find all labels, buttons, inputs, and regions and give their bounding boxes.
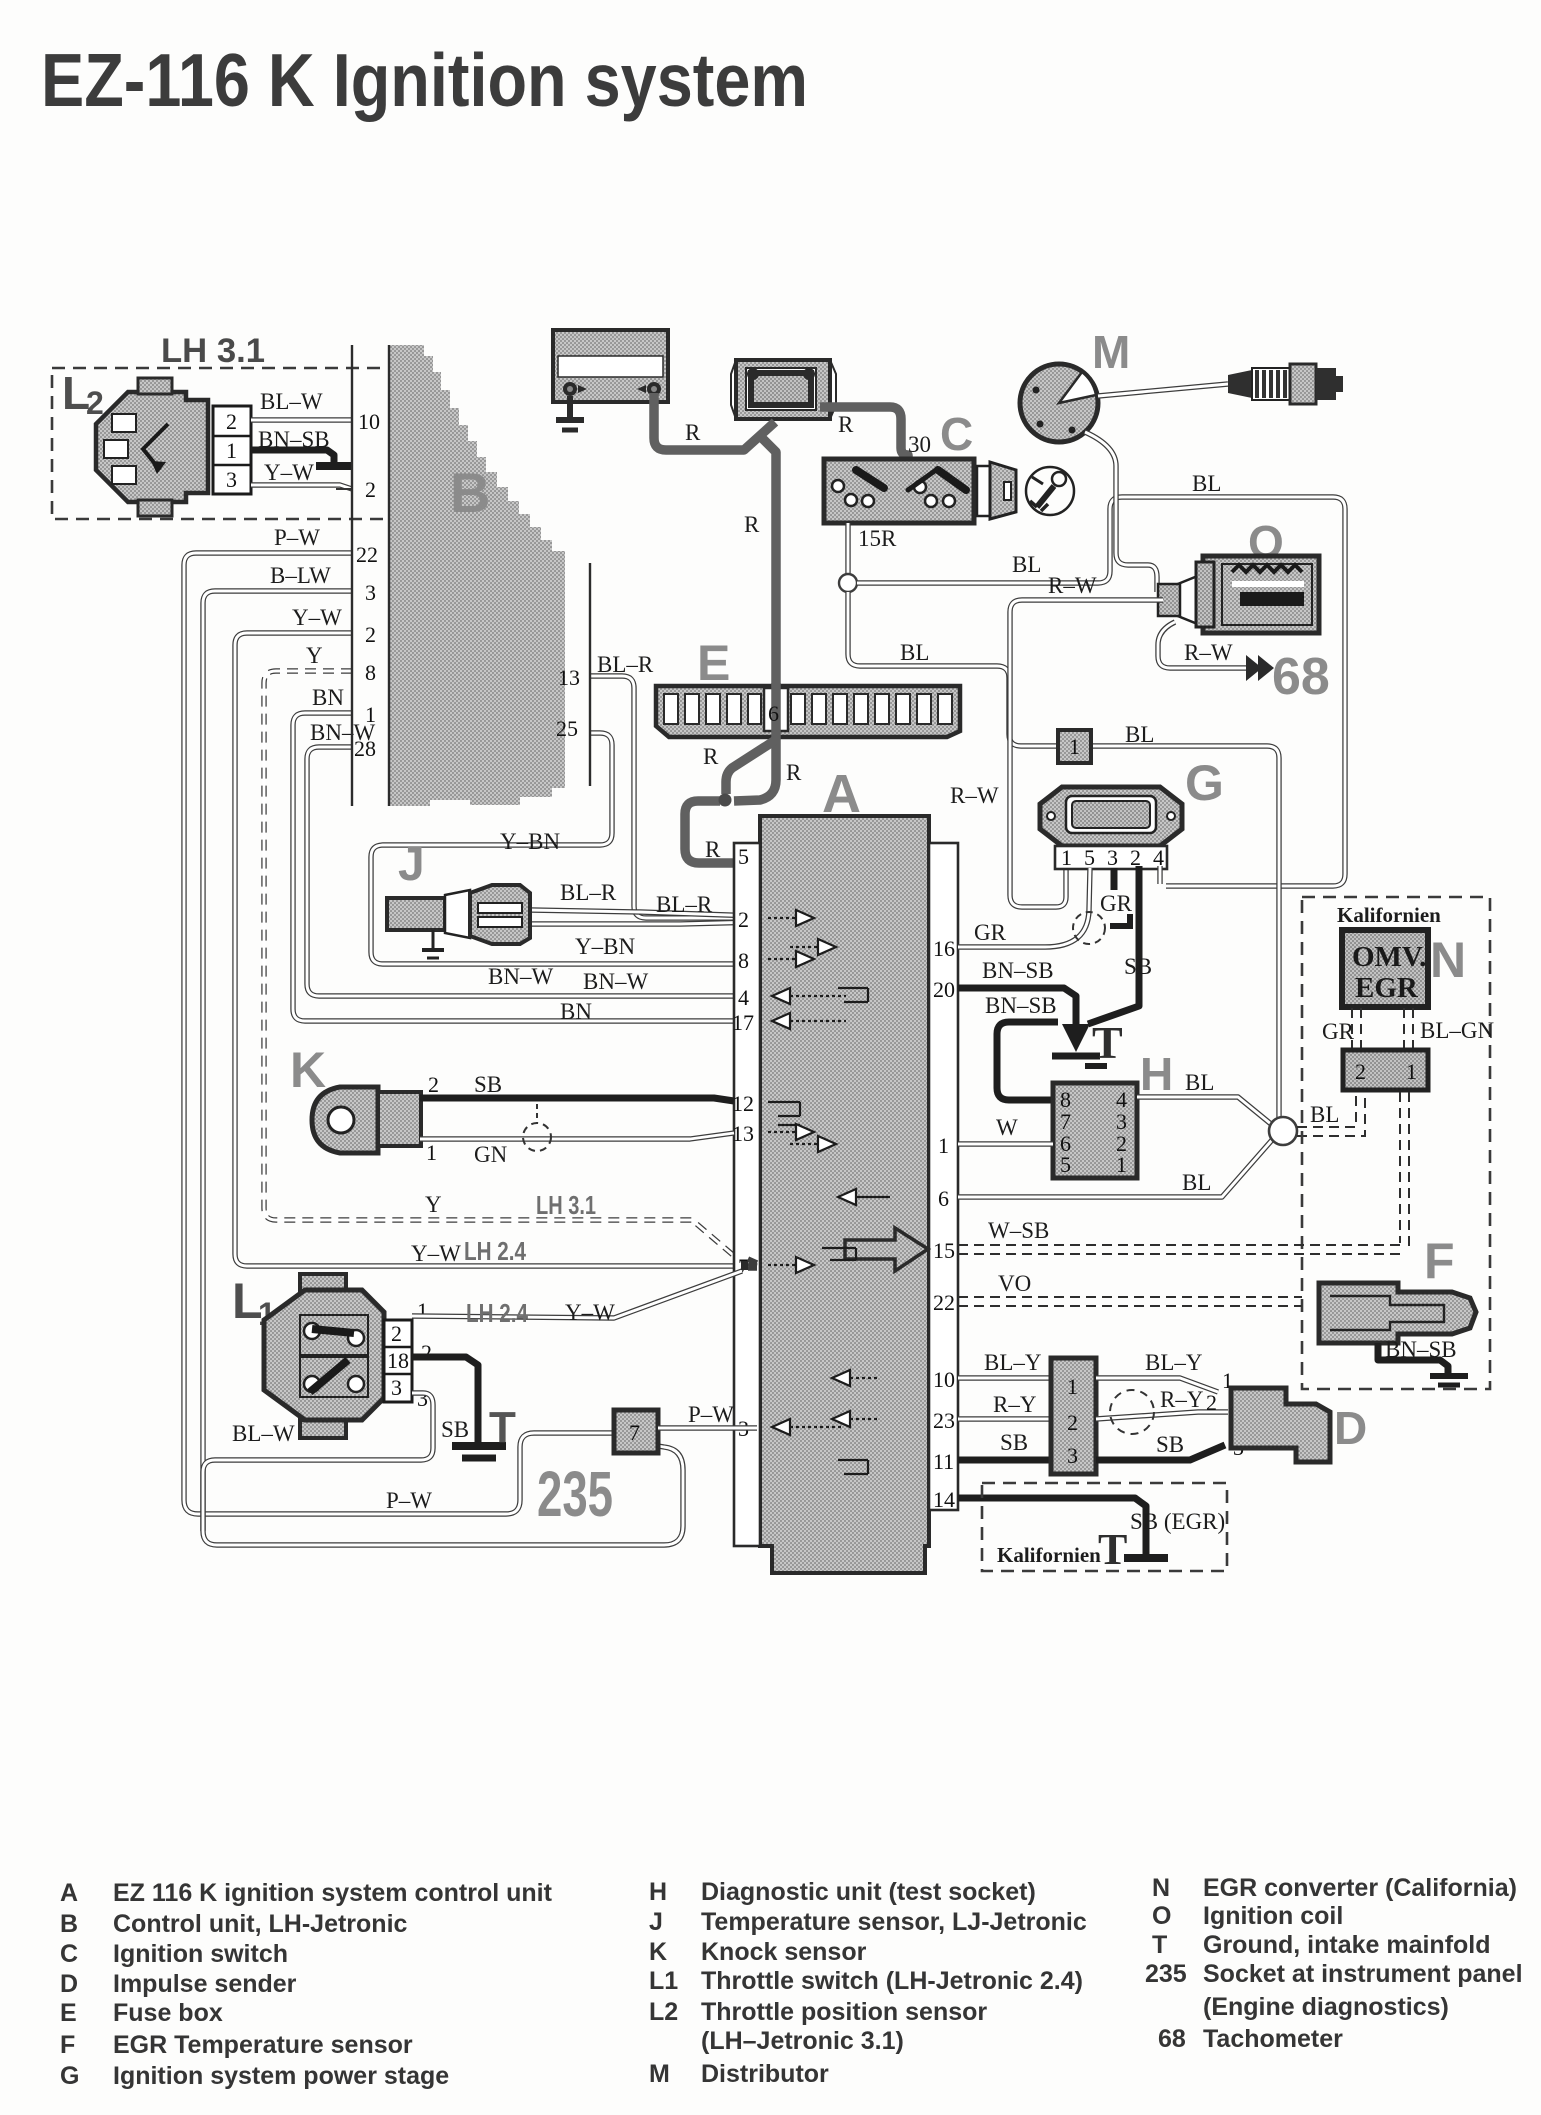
legend column 2 (649, 1878, 1087, 2088)
A internal arrow symbols (768, 910, 890, 1474)
dashed pins from OMV EGR down to connector (1352, 1008, 1413, 1050)
wire R-W (ignition coil to power stage G) (1010, 600, 1163, 907)
svg-text:1: 1 (1406, 1059, 1417, 1084)
svg-text:3: 3 (365, 580, 376, 605)
svg-text:20: 20 (933, 977, 955, 1002)
svg-text:30: 30 (908, 432, 931, 457)
svg-text:Throttle switch (LH-Jetronic 2: Throttle switch (LH-Jetronic 2.4) (701, 1967, 1083, 1995)
wire R (battery to junction, thick) (654, 393, 775, 450)
test box 7 on P-W wire (614, 1410, 658, 1453)
svg-text:BL: BL (1125, 722, 1154, 747)
svg-text:SB (EGR): SB (EGR) (1130, 1509, 1225, 1534)
svg-text:7: 7 (629, 1420, 640, 1445)
svg-text:Knock sensor: Knock sensor (701, 1938, 867, 1966)
svg-text:R–W: R–W (1184, 640, 1233, 665)
svg-text:R–Y: R–Y (1160, 1387, 1204, 1412)
svg-text:R: R (786, 760, 802, 785)
wire BN-W (B pin 28 around to A pin 4) (307, 747, 757, 996)
diagnostic junction node (1269, 1117, 1297, 1145)
svg-text:1: 1 (1116, 1152, 1127, 1177)
wire BL-W (L1 pin 3 loop left to harness) (203, 1393, 433, 1531)
svg-text:C: C (940, 408, 973, 460)
wire SB (A pin 11 to connector, shielded) (958, 1457, 1051, 1464)
svg-text:1: 1 (417, 1298, 428, 1323)
svg-text:BL–R: BL–R (597, 652, 654, 677)
svg-text:13: 13 (732, 1121, 754, 1146)
impulse sender D (1231, 1388, 1330, 1462)
svg-text:1: 1 (938, 1133, 949, 1158)
svg-text:N: N (1430, 932, 1466, 988)
svg-text:F: F (60, 2031, 75, 2059)
svg-text:Throttle position sensor: Throttle position sensor (701, 1998, 987, 2026)
svg-text:23: 23 (933, 1408, 955, 1433)
svg-text:18: 18 (387, 1348, 409, 1373)
wire BN-SB (diagnostic unit H loop to ground T) (997, 1022, 1058, 1100)
wire R (ballast resistor to ignition switch 30) (820, 407, 908, 472)
svg-text:Kalifornien: Kalifornien (997, 1543, 1101, 1567)
svg-text:B–LW: B–LW (270, 563, 331, 588)
svg-text:1: 1 (226, 438, 237, 463)
key symbol (1026, 467, 1074, 515)
tachometer arrow and 68 (1246, 655, 1262, 681)
svg-text:GR: GR (1322, 1019, 1355, 1044)
svg-text:R–W: R–W (1048, 573, 1097, 598)
svg-text:25: 25 (556, 716, 578, 741)
svg-text:2: 2 (738, 907, 749, 932)
svg-text:VO: VO (998, 1271, 1031, 1296)
svg-text:Control unit, LH-Jetronic: Control unit, LH-Jetronic (113, 1910, 408, 1938)
wire R-Y (A pin 23 to connector) (958, 1416, 1051, 1421)
svg-text:LH 3.1: LH 3.1 (161, 332, 265, 370)
svg-text:P–W: P–W (386, 1488, 432, 1513)
svg-text:BL–R: BL–R (656, 892, 713, 917)
svg-text:SB: SB (1124, 954, 1152, 979)
svg-text:2: 2 (86, 385, 104, 421)
svg-text:BN: BN (560, 999, 592, 1024)
svg-text:G: G (1185, 755, 1224, 811)
svg-text:R: R (703, 744, 719, 769)
svg-text:BL–Y: BL–Y (984, 1350, 1042, 1375)
svg-text:(Engine diagnostics): (Engine diagnostics) (1203, 1993, 1449, 2021)
svg-text:8: 8 (365, 660, 376, 685)
wire Y-W LH2.4 (B pin 2 around to A pin 7 funnel) (235, 633, 746, 1266)
svg-text:GR: GR (1100, 891, 1133, 916)
ground below J (432, 930, 435, 950)
test point box 1 on BL wire (1058, 730, 1091, 763)
svg-text:6: 6 (768, 701, 779, 726)
svg-text:2: 2 (428, 1072, 439, 1097)
svg-text:R–Y: R–Y (993, 1392, 1037, 1417)
legend column 3 (1145, 1874, 1523, 2053)
funnel joint into A pin 7 (741, 1259, 757, 1270)
svg-text:M: M (1092, 326, 1130, 378)
svg-text:Socket at instrument panel: Socket at instrument panel (1203, 1960, 1523, 1988)
wire R-W (to tachometer 68) (1158, 622, 1248, 668)
svg-text:BL: BL (1192, 471, 1221, 496)
svg-text:SB: SB (441, 1417, 469, 1442)
svg-text:SB: SB (1156, 1432, 1184, 1457)
svg-text:2: 2 (1206, 1390, 1217, 1415)
svg-text:OMV.: OMV. (1352, 941, 1426, 973)
svg-text:Y: Y (306, 643, 323, 668)
component B pin column (left) (352, 345, 389, 806)
svg-text:LH 2.4: LH 2.4 (466, 1298, 528, 1328)
junction node below C (839, 574, 857, 592)
svg-text:235: 235 (1145, 1960, 1187, 1988)
svg-text:W: W (996, 1115, 1018, 1140)
svg-text:BL–R: BL–R (560, 880, 617, 905)
svg-text:2: 2 (1355, 1059, 1366, 1084)
svg-text:B: B (450, 461, 490, 524)
svg-text:Temperature sensor, LJ-Jetroni: Temperature sensor, LJ-Jetronic (701, 1908, 1087, 1936)
svg-text:(LH–Jetronic 3.1): (LH–Jetronic 3.1) (701, 2027, 904, 2055)
dashed shield circle on GN wire (523, 1123, 551, 1151)
svg-text:Y: Y (425, 1192, 442, 1217)
wire GN (knock sensor pin 1 to A pin 13) (420, 1133, 734, 1139)
svg-text:BL: BL (900, 640, 929, 665)
svg-text:1: 1 (1069, 734, 1080, 759)
dashed circle on impulse sender wires (1110, 1390, 1154, 1434)
svg-text:G: G (60, 2062, 79, 2090)
svg-text:J: J (398, 838, 425, 891)
A pin numbers right column (933, 936, 955, 1512)
svg-text:Y–W: Y–W (264, 460, 314, 485)
wire R (down to fuse box, thick) (762, 438, 776, 686)
svg-text:T: T (1098, 1525, 1127, 1574)
wire Y-W LH2.4 (L1 pin 1 to A pin 7 funnel) (412, 1271, 742, 1318)
ground T, intake manifold (arrow into ground) (1062, 1024, 1090, 1052)
wire P-W (box 7 to A pin 3) (658, 1425, 757, 1430)
svg-text:1: 1 (1061, 845, 1072, 870)
A big output arrow at pin 15 (845, 1228, 928, 1271)
svg-text:BL: BL (1185, 1070, 1214, 1095)
svg-text:BL–Y: BL–Y (1145, 1350, 1203, 1375)
svg-text:2: 2 (391, 1321, 402, 1346)
wire W (A pin 1 to diagnostic unit H) (958, 1141, 1053, 1146)
svg-text:5: 5 (738, 844, 749, 869)
wire BL-W (L2 pin 2 to B pin 10) (251, 417, 352, 422)
svg-text:3: 3 (1067, 1443, 1078, 1468)
svg-text:C: C (60, 1940, 78, 1968)
svg-text:2: 2 (226, 409, 237, 434)
ground T below L1 (452, 1442, 506, 1450)
svg-text:3: 3 (226, 467, 237, 492)
dashed wire from N pin 1 down to W-SB wire (1400, 1092, 1409, 1252)
svg-text:BL–W: BL–W (232, 1421, 295, 1446)
svg-text:EZ 116 K ignition system contr: EZ 116 K ignition system control unit (113, 1879, 553, 1907)
dashed enclosure (Kalifornien) (1302, 897, 1490, 1389)
svg-text:1: 1 (426, 1140, 437, 1165)
svg-text:Ignition switch: Ignition switch (113, 1940, 288, 1968)
svg-text:H: H (649, 1878, 667, 1906)
svg-text:P–W: P–W (688, 1402, 734, 1427)
OMV EGR box (1342, 930, 1428, 1007)
svg-text:2: 2 (365, 622, 376, 647)
svg-text:BN–SB: BN–SB (258, 427, 330, 452)
wire W-SB dashed (A pin 15 to N) (958, 1244, 1404, 1246)
svg-text:W–SB: W–SB (988, 1218, 1049, 1243)
svg-text:BN–W: BN–W (488, 964, 553, 989)
svg-text:D: D (1334, 1402, 1367, 1454)
svg-text:EZ-116 K Ignition system: EZ-116 K Ignition system (41, 38, 808, 122)
svg-text:3: 3 (391, 1375, 402, 1400)
svg-text:H: H (1140, 1048, 1173, 1100)
wire R (fuse box to control unit A pin 5) (734, 683, 776, 801)
wire BL-Y (connector to impulse sender pin 1) (1096, 1378, 1218, 1392)
svg-text:Distributor: Distributor (701, 2060, 829, 2088)
svg-text:16: 16 (933, 936, 955, 961)
svg-text:2: 2 (1067, 1410, 1078, 1435)
svg-text:EGR converter (California): EGR converter (California) (1203, 1874, 1517, 1902)
svg-text:68: 68 (1272, 648, 1330, 706)
svg-text:Y–W: Y–W (411, 1241, 461, 1266)
svg-text:10: 10 (358, 409, 380, 434)
wire Y LH3.1 dashed (B pin 8 around to A pin 7 funnel) (264, 671, 740, 1261)
svg-text:SB: SB (1000, 1430, 1028, 1455)
svg-text:4: 4 (738, 985, 749, 1010)
svg-text:BN–SB: BN–SB (1385, 1337, 1457, 1362)
svg-text:Impulse sender: Impulse sender (113, 1970, 297, 1998)
svg-text:2: 2 (365, 477, 376, 502)
A pin numbers left column (732, 844, 754, 1441)
wire BN-SB (A pin 20 to ground T, shielded) (958, 988, 1076, 1030)
svg-text:BN–SB: BN–SB (982, 958, 1054, 983)
svg-text:EGR: EGR (1355, 972, 1419, 1004)
svg-text:Y–BN: Y–BN (500, 829, 560, 854)
ground below battery (556, 396, 584, 430)
svg-text:K: K (649, 1938, 667, 1966)
spark plug (1228, 364, 1343, 404)
svg-text:Ground, intake mainfold: Ground, intake mainfold (1203, 1931, 1491, 1959)
ballast resistor component top-middle (731, 360, 836, 419)
wire SB (connector to impulse sender pin 3, shielded) (1096, 1445, 1225, 1460)
svg-text:Y–W: Y–W (565, 1300, 615, 1325)
wire BL dashed (junction into California EGR converter) (1297, 1092, 1356, 1127)
svg-text:M: M (649, 2060, 670, 2088)
component B pin column (right) (589, 563, 591, 786)
svg-text:L1: L1 (649, 1967, 678, 1995)
svg-text:2: 2 (421, 1340, 432, 1365)
wire BL (A pin 6 to diagnostic junction) (958, 1140, 1272, 1197)
svg-text:Fuse box: Fuse box (113, 1999, 223, 2027)
svg-text:BN: BN (312, 685, 344, 710)
dashed box around L2 (52, 368, 394, 519)
wire BN-SB (EGR sensor to ground) (1378, 1343, 1448, 1374)
dashed circle on GR wire (1073, 912, 1105, 944)
throttle position sensor L2 body (96, 392, 208, 502)
N connector box pins 2,1 (1343, 1050, 1428, 1090)
svg-text:22: 22 (933, 1290, 955, 1315)
svg-text:R: R (744, 512, 760, 537)
wire BL-R (B pin 13 down to A pin 2 run) (590, 676, 757, 918)
wire from G pin 4 down to BL loop (1157, 866, 1162, 884)
inline connector 1-2-3 (1051, 1358, 1096, 1474)
svg-text:T: T (1092, 1017, 1123, 1068)
svg-text:L2: L2 (649, 1998, 678, 2026)
svg-text:28: 28 (354, 736, 376, 761)
svg-text:LH 3.1: LH 3.1 (536, 1190, 596, 1220)
svg-text:Tachometer: Tachometer (1203, 2025, 1343, 2053)
wire P-W (B pin 22 to bottom rail / 235 socket) (184, 553, 614, 1514)
svg-text:3: 3 (417, 1386, 428, 1411)
legend column 1 (60, 1879, 553, 2090)
wire BN (B pin 1 around to A pin 17) (293, 713, 757, 1021)
wire BL (junction down, to test point 1 and diagnostic junction) (848, 592, 1279, 1120)
wire SB (knock sensor pin 2 to A pin 12, shielded) (420, 1098, 734, 1101)
svg-text:D: D (60, 1970, 78, 1998)
svg-text:E: E (697, 635, 730, 691)
svg-text:6: 6 (938, 1186, 949, 1211)
svg-text:R–W: R–W (950, 783, 999, 808)
svg-text:22: 22 (356, 542, 378, 567)
ground below F (1430, 1373, 1468, 1379)
wire BL-Y (A pin 10 to connector) (958, 1375, 1051, 1380)
svg-text:BL: BL (1310, 1102, 1339, 1127)
svg-text:BL: BL (1182, 1170, 1211, 1195)
svg-text:Diagnostic unit (test socket): Diagnostic unit (test socket) (701, 1878, 1036, 1906)
svg-text:N: N (1152, 1874, 1170, 1902)
connector at right of ignition switch (977, 466, 990, 516)
svg-text:F: F (1424, 1233, 1455, 1289)
svg-text:GR: GR (974, 920, 1007, 945)
wire Y-BN (B pin 25 loop down-left to temperature sensor J) (371, 733, 757, 964)
svg-text:P–W: P–W (274, 525, 320, 550)
wire B-LW (B pin 3 down left side to bottom) (203, 591, 683, 1545)
svg-text:1: 1 (365, 702, 376, 727)
wire SB (L1 pin 18/2 to ground, shielded) (412, 1357, 478, 1442)
svg-text:13: 13 (558, 665, 580, 690)
svg-text:O: O (1152, 1902, 1171, 1930)
svg-text:Ignition system power stage: Ignition system power stage (113, 2062, 449, 2090)
wire Y-W (L2 pin 3 to B pin 2) (251, 485, 352, 489)
svg-text:BL: BL (1012, 552, 1041, 577)
svg-text:A: A (60, 1879, 78, 1907)
component B gray body (389, 345, 565, 806)
svg-text:8: 8 (738, 948, 749, 973)
L1 pin box (384, 1320, 412, 1402)
svg-text:R: R (838, 412, 854, 437)
svg-text:GN: GN (474, 1142, 508, 1167)
wire SB EGR (A pin 14 to California ground) (958, 1498, 1146, 1554)
svg-text:12: 12 (732, 1091, 754, 1116)
svg-text:R: R (685, 420, 701, 445)
wire BL (junction right, up and over to right side) (857, 497, 1345, 886)
svg-text:B: B (60, 1910, 78, 1938)
svg-text:E: E (60, 1999, 77, 2027)
svg-text:68: 68 (1158, 2025, 1186, 2053)
svg-text:Y–BN: Y–BN (575, 934, 635, 959)
svg-text:LH 2.4: LH 2.4 (464, 1236, 526, 1266)
svg-text:T: T (1152, 1931, 1167, 1959)
wire (distributor to spark plug) (1098, 384, 1228, 396)
svg-text:15R: 15R (858, 526, 897, 551)
L2 pin connector block (pins 2,1,3) (213, 406, 251, 494)
wire BL-R (temperature sensor J to A pin 2) (530, 910, 757, 916)
svg-text:K: K (290, 1042, 326, 1098)
svg-text:5: 5 (1084, 845, 1095, 870)
wire BL (H pin 4 to diagnostic junction) (1137, 1097, 1271, 1124)
dashed GR stub from G pin 3 (1111, 868, 1118, 890)
svg-text:Ignition coil: Ignition coil (1203, 1902, 1343, 1930)
svg-text:R: R (705, 837, 721, 862)
svg-text:11: 11 (933, 1449, 954, 1474)
svg-text:3: 3 (1107, 845, 1118, 870)
svg-text:5: 5 (1060, 1152, 1071, 1177)
wire 15R (ignition switch to junction) (845, 523, 850, 575)
wire GR (A pin 16 to power stage) (958, 868, 1090, 947)
junction dot (719, 794, 732, 807)
wire BN-SB stub (L2 pin 1, shielded) (251, 450, 334, 462)
svg-text:SB: SB (474, 1072, 502, 1097)
wire R-Y (connector to impulse sender pin 2) (1096, 1412, 1228, 1419)
svg-text:BL–GN: BL–GN (1420, 1018, 1495, 1043)
California dashed box bottom (982, 1483, 1227, 1571)
svg-text:T: T (489, 1403, 516, 1452)
wire (distributor to ignition coil O) (1085, 432, 1157, 592)
svg-text:10: 10 (933, 1367, 955, 1392)
svg-text:235: 235 (537, 1458, 613, 1530)
svg-text:14: 14 (933, 1487, 955, 1512)
wire Y-BN (temperature sensor J to A pin 8) (530, 922, 757, 924)
wire SB (G pin 2 down to ground T, shielded) (1088, 866, 1139, 1024)
svg-text:Y–W: Y–W (292, 605, 342, 630)
svg-text:EGR Temperature sensor: EGR Temperature sensor (113, 2031, 413, 2059)
wire VO dashed (A pin 22 to dashed box) (958, 1296, 1302, 1298)
svg-text:15: 15 (933, 1238, 955, 1263)
svg-text:17: 17 (732, 1010, 754, 1035)
svg-text:J: J (649, 1908, 663, 1936)
svg-text:Kalifornien: Kalifornien (1337, 903, 1441, 927)
svg-text:BL–W: BL–W (260, 389, 323, 414)
svg-text:BN–SB: BN–SB (985, 993, 1057, 1018)
svg-text:BN–W: BN–W (583, 969, 648, 994)
svg-text:1: 1 (1067, 1374, 1078, 1399)
battery / relay component top-left (553, 330, 668, 402)
